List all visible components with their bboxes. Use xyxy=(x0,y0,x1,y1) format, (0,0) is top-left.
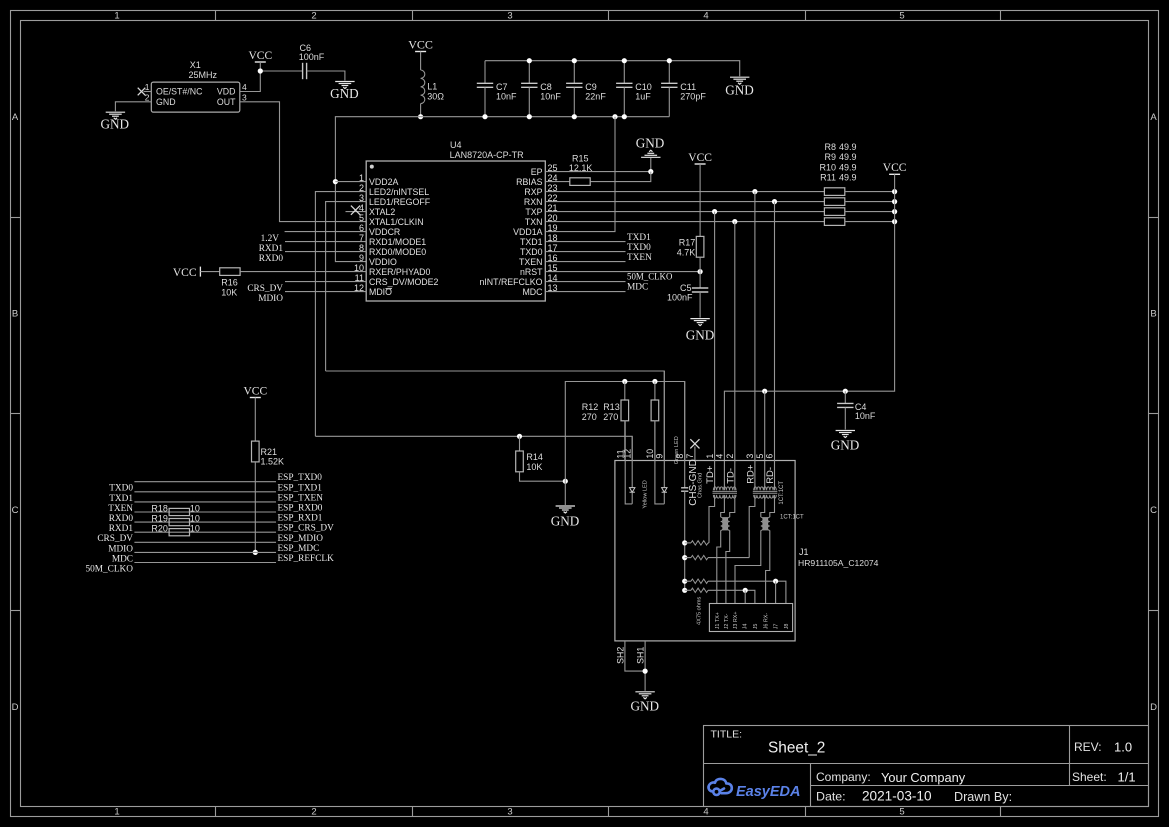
junction dots cap bank top rail xyxy=(527,58,532,63)
wire VCC to R21 xyxy=(254,398,256,442)
wire VDD rail xyxy=(335,117,669,262)
svg-text:CRS_DV/MODE2: CRS_DV/MODE2 xyxy=(369,277,439,287)
wire RXD0 pin8 xyxy=(285,251,366,253)
wire 50M_CLKO to ESP_REFCLK xyxy=(134,562,276,564)
svg-text:VCC: VCC xyxy=(883,162,907,174)
crystal oscillator X1 25MHz xyxy=(151,82,240,112)
svg-text:ESP_REFCLK: ESP_REFCLK xyxy=(278,554,335,564)
wire R17 to nRST node xyxy=(699,257,701,271)
svg-text:5: 5 xyxy=(899,11,904,22)
resistor R12 270 xyxy=(624,382,626,401)
svg-text:3: 3 xyxy=(242,92,247,102)
wire nRST pin15 to R17/C5 xyxy=(545,271,700,273)
svg-text:ESP_RXD1: ESP_RXD1 xyxy=(278,514,323,524)
wire X1 VDD pin4 to VCC xyxy=(240,71,260,92)
transformer RX primary winding xyxy=(764,461,766,490)
common mode choke RX xyxy=(763,517,768,530)
svg-text:9: 9 xyxy=(655,454,665,459)
svg-text:10K: 10K xyxy=(221,287,237,297)
J1 shield pin SH2 xyxy=(625,641,645,671)
svg-text:TXEN: TXEN xyxy=(108,504,133,514)
svg-text:1uF: 1uF xyxy=(635,92,651,102)
svg-text:GND: GND xyxy=(156,97,176,107)
svg-text:TXD1: TXD1 xyxy=(520,237,543,247)
resistor R13 270 xyxy=(654,382,656,401)
wire R9 to VCC rail xyxy=(845,201,895,203)
wire VCC to R17 xyxy=(699,164,701,236)
svg-text:5: 5 xyxy=(755,454,765,459)
svg-text:Sheet_2: Sheet_2 xyxy=(768,740,825,757)
svg-text:VDDIO: VDDIO xyxy=(369,257,397,267)
svg-text:C8: C8 xyxy=(540,82,552,92)
junction dots cap bank bottom rail xyxy=(482,114,487,119)
svg-text:R20: R20 xyxy=(151,524,168,534)
power flag VCC terminations xyxy=(889,173,900,175)
node VDD2A pin1 branch xyxy=(333,179,338,184)
svg-text:GND: GND xyxy=(831,438,860,453)
termination resistor 75ohm 4 xyxy=(685,589,691,591)
wire R8 to VCC rail xyxy=(845,191,895,193)
svg-text:1.52K: 1.52K xyxy=(261,456,285,466)
svg-text:EP: EP xyxy=(531,167,543,177)
inductor L1 30ohm xyxy=(421,70,425,104)
svg-text:2: 2 xyxy=(725,454,735,459)
power flag VCC R17 xyxy=(695,163,706,165)
svg-text:B: B xyxy=(1150,309,1156,320)
svg-text:C: C xyxy=(1150,505,1157,516)
svg-text:10nF: 10nF xyxy=(496,92,517,102)
ground X1 xyxy=(106,112,125,119)
wire TX secondary left to 75ohm xyxy=(709,495,715,543)
wire 75ohm2 to RX secondary xyxy=(708,557,749,559)
wire R10 to VCC rail xyxy=(845,211,895,213)
svg-text:R18: R18 xyxy=(151,504,168,514)
svg-text:ESP_MDIO: ESP_MDIO xyxy=(278,534,324,544)
svg-text:ESP_RXD0: ESP_RXD0 xyxy=(278,504,323,514)
capacitor C7 10nF xyxy=(484,61,486,84)
svg-text:4X75 ohms: 4X75 ohms xyxy=(697,597,703,625)
svg-text:270pF: 270pF xyxy=(680,92,706,102)
wire RXP to J1 pin3 xyxy=(754,192,756,491)
svg-text:OUT: OUT xyxy=(217,97,236,107)
pin 4 XTAL2 no-connect stub xyxy=(346,211,367,213)
svg-text:R12: R12 xyxy=(582,402,599,412)
svg-text:49.9: 49.9 xyxy=(839,142,857,152)
wire RXN to J1 pin6 xyxy=(774,202,776,491)
svg-text:B: B xyxy=(12,309,18,320)
termination resistor 75ohm 3 xyxy=(685,580,691,582)
wire GND rail above caps xyxy=(485,61,740,76)
ground C5 xyxy=(690,319,709,326)
wire RX- to inner pin J6 xyxy=(766,530,770,603)
resistor R16 10K xyxy=(220,268,240,276)
svg-text:10nF: 10nF xyxy=(855,411,876,421)
svg-text:LAN8720A-CP-TR: LAN8720A-CP-TR xyxy=(450,150,525,160)
svg-text:RXD1: RXD1 xyxy=(109,524,134,534)
wire VCC rail down to transformer center taps xyxy=(724,174,894,461)
svg-text:270: 270 xyxy=(603,412,618,422)
svg-text:RXD1/MODE1: RXD1/MODE1 xyxy=(369,237,426,247)
wire RXD0 to ESP_RXD0 xyxy=(134,511,276,513)
wire MDC to ESP_MDC xyxy=(134,551,276,553)
svg-text:10: 10 xyxy=(190,524,200,534)
svg-text:Chas.Gnd: Chas.Gnd xyxy=(697,473,703,498)
svg-text:J2 TX-: J2 TX- xyxy=(724,613,730,629)
wire LED1 net pin3 xyxy=(326,202,367,371)
wire TXP to J1 pin1 xyxy=(714,212,716,491)
svg-text:ESP_MDC: ESP_MDC xyxy=(278,544,320,554)
svg-text:C5: C5 xyxy=(680,283,692,293)
svg-text:Yellow LED: Yellow LED xyxy=(642,480,648,508)
svg-text:MDIO: MDIO xyxy=(108,544,133,554)
common mode choke TX xyxy=(723,517,728,530)
svg-text:TXD1: TXD1 xyxy=(627,233,651,243)
svg-text:1: 1 xyxy=(145,82,150,92)
svg-text:RBIAS: RBIAS xyxy=(516,177,543,187)
wire 75ohm4 to J4 J5 xyxy=(708,590,755,603)
wire R14 to ground rail xyxy=(520,472,566,481)
transformer TX primary winding xyxy=(723,461,725,490)
svg-text:J8: J8 xyxy=(784,624,790,630)
svg-text:RXN: RXN xyxy=(524,197,543,207)
no-connect J1 pin7 xyxy=(694,447,696,462)
svg-text:4.7K: 4.7K xyxy=(677,247,696,257)
svg-text:ESP_TXD1: ESP_TXD1 xyxy=(278,483,323,493)
wire TXD1 to ESP_TXD1 xyxy=(134,491,276,493)
wire C5 to ground xyxy=(699,292,701,318)
resistor R8 49.9 xyxy=(824,188,844,196)
svg-text:U4: U4 xyxy=(450,140,462,150)
svg-text:50M_CLKO: 50M_CLKO xyxy=(85,565,133,575)
wire 75ohm3 to J7 J8 xyxy=(708,581,786,603)
svg-text:1.2V: 1.2V xyxy=(261,234,280,244)
svg-text:SH1: SH1 xyxy=(636,647,646,664)
wire LED2 net to J1 pin12 xyxy=(315,436,632,461)
wire RX secondary CT to choke xyxy=(761,495,765,517)
svg-text:2: 2 xyxy=(311,807,316,818)
svg-text:J6 RX-: J6 RX- xyxy=(764,613,770,630)
svg-text:J7: J7 xyxy=(774,624,780,630)
transformer TX secondary winding xyxy=(713,495,736,498)
svg-text:C11: C11 xyxy=(680,82,696,92)
wire MDIO pin12 xyxy=(285,291,366,293)
svg-text:3: 3 xyxy=(745,454,755,459)
svg-text:C7: C7 xyxy=(496,82,508,92)
yellow LED J1 pin12 xyxy=(631,436,633,487)
svg-text:2: 2 xyxy=(311,11,316,22)
svg-text:HR911105A_C12074: HR911105A_C12074 xyxy=(798,558,879,568)
svg-text:10: 10 xyxy=(190,514,200,524)
wire X1 OUT to XTAL1/CLKIN xyxy=(240,102,366,222)
svg-text:4: 4 xyxy=(242,82,247,92)
svg-text:R14: R14 xyxy=(526,452,543,462)
svg-text:GND: GND xyxy=(631,699,660,714)
wire R13 to J1 pin10 xyxy=(654,421,656,461)
transformer RX secondary winding xyxy=(754,495,777,498)
svg-text:REV:: REV: xyxy=(1074,740,1102,754)
svg-text:1: 1 xyxy=(705,454,715,459)
ground shield xyxy=(635,692,654,699)
svg-text:1/1: 1/1 xyxy=(1118,770,1136,785)
svg-text:A: A xyxy=(12,112,19,123)
svg-text:J5: J5 xyxy=(753,624,759,630)
wire CRS_DV to ESP_CRS_DV xyxy=(134,531,276,533)
svg-text:12.1K: 12.1K xyxy=(569,163,593,173)
svg-text:25MHz: 25MHz xyxy=(189,70,218,80)
wire R16 to RXER pin10 xyxy=(240,271,366,273)
svg-text:4: 4 xyxy=(703,807,708,818)
svg-text:LED2/nINTSEL: LED2/nINTSEL xyxy=(369,187,429,197)
svg-text:TXEN: TXEN xyxy=(519,257,542,267)
svg-text:TITLE:: TITLE: xyxy=(711,729,743,741)
wire VCC to R16 xyxy=(200,271,219,273)
termination resistor 75ohm 1 xyxy=(685,542,691,544)
svg-text:A: A xyxy=(1150,112,1157,123)
svg-text:J3 RX+: J3 RX+ xyxy=(733,611,739,629)
wire TXD1 pin18 xyxy=(545,241,625,243)
wire L1 to VDD rail xyxy=(420,104,422,117)
green LED J1 pin9 xyxy=(663,371,665,487)
svg-text:49.9: 49.9 xyxy=(839,162,857,172)
wire C4 to ground xyxy=(844,407,846,429)
resistor R15 12.1K xyxy=(570,178,590,186)
svg-text:C9: C9 xyxy=(585,82,597,92)
ground C6 xyxy=(335,82,354,89)
pin 1 X1 OE no-connect xyxy=(144,91,152,93)
svg-text:5: 5 xyxy=(899,807,904,818)
svg-text:VDD: VDD xyxy=(217,87,236,97)
svg-text:MDC: MDC xyxy=(627,283,648,293)
svg-text:4: 4 xyxy=(703,11,708,22)
svg-text:30Ω: 30Ω xyxy=(427,92,444,102)
wire TX secondary right to choke xyxy=(730,495,735,517)
svg-text:VDD1A: VDD1A xyxy=(513,227,542,237)
wire EP pin25 to ground xyxy=(545,171,651,173)
wire TX+ to inner pin J1 xyxy=(717,530,721,603)
capacitor C11 270pF xyxy=(668,61,670,84)
capacitor C9 22nF xyxy=(573,61,575,84)
svg-text:VDDCR: VDDCR xyxy=(369,227,400,237)
resistor R10 49.9 xyxy=(824,208,844,216)
svg-text:R11: R11 xyxy=(820,173,836,183)
transformer RX core xyxy=(753,491,778,493)
wire J1 pin11 led loop xyxy=(625,421,632,504)
power flag VCC L1 xyxy=(415,51,426,53)
svg-text:RXD0: RXD0 xyxy=(109,514,134,524)
svg-text:49.9: 49.9 xyxy=(839,152,857,162)
wire chassis rail xyxy=(684,491,686,590)
wire TXEN to ESP_TXEN xyxy=(134,501,276,503)
svg-text:D: D xyxy=(1150,702,1157,713)
wire TXD0 to ESP_TXD0 xyxy=(134,481,276,483)
svg-text:ESP_TXD0: ESP_TXD0 xyxy=(278,473,323,483)
capacitor chassis J1 pin8 xyxy=(684,382,686,488)
capacitor C10 1uF xyxy=(623,61,625,84)
svg-text:3: 3 xyxy=(507,11,512,22)
connector J1 HR911105A_C12074 xyxy=(615,461,795,641)
resistor R21 1.52K xyxy=(252,441,260,462)
wire TXN to J1 pin2 xyxy=(734,222,736,491)
svg-text:TXEN: TXEN xyxy=(627,253,652,263)
svg-text:SH2: SH2 xyxy=(615,647,625,664)
termination resistor 75ohm 2 xyxy=(685,557,691,559)
svg-text:1CT:1CT: 1CT:1CT xyxy=(779,481,785,505)
wire RXN to termination R9 xyxy=(545,201,824,203)
svg-text:1: 1 xyxy=(359,173,364,183)
svg-text:Company:: Company: xyxy=(816,770,871,784)
svg-text:L1: L1 xyxy=(427,82,437,92)
wire nRST to C5 xyxy=(699,272,701,288)
capacitor C5 100nF xyxy=(692,288,708,292)
svg-text:R9: R9 xyxy=(824,152,836,162)
svg-text:VCC: VCC xyxy=(243,385,267,397)
svg-text:12: 12 xyxy=(622,449,632,459)
J1 shield pin SH1 xyxy=(644,641,646,691)
svg-text:J1: J1 xyxy=(799,547,809,557)
svg-text:VCC: VCC xyxy=(688,152,712,164)
svg-text:GND: GND xyxy=(725,83,754,98)
svg-text:1: 1 xyxy=(114,11,119,22)
wire C6 to ground xyxy=(307,71,345,81)
svg-text:10nF: 10nF xyxy=(540,92,561,102)
wire J7 drop xyxy=(775,581,777,603)
svg-text:X1: X1 xyxy=(190,60,201,70)
svg-text:2021-03-10: 2021-03-10 xyxy=(862,789,932,804)
svg-text:CRS_DV: CRS_DV xyxy=(97,534,133,544)
svg-text:2: 2 xyxy=(145,92,150,102)
svg-text:Sheet:: Sheet: xyxy=(1072,770,1107,784)
wire TXD0 pin17 xyxy=(545,251,625,253)
svg-text:TXD0: TXD0 xyxy=(520,247,543,257)
wire VDD1A pin19 to rail xyxy=(545,117,615,232)
svg-text:49.9: 49.9 xyxy=(839,173,857,183)
svg-text:D: D xyxy=(12,702,19,713)
svg-text:50M_CLKO: 50M_CLKO xyxy=(627,272,673,282)
wire R15 to EP node xyxy=(590,172,650,182)
svg-text:J4: J4 xyxy=(742,624,748,630)
svg-text:270: 270 xyxy=(582,412,597,422)
svg-text:Date:: Date: xyxy=(816,790,846,804)
svg-text:C10: C10 xyxy=(635,82,652,92)
wire TXN to termination R11 xyxy=(545,221,824,223)
svg-text:VDD2A: VDD2A xyxy=(369,177,398,187)
svg-text:7: 7 xyxy=(685,454,695,459)
wire LED resistor ground rail xyxy=(565,382,684,506)
svg-text:RXP: RXP xyxy=(524,187,542,197)
svg-text:CRS_DV: CRS_DV xyxy=(247,284,283,294)
svg-text:R17: R17 xyxy=(679,237,696,247)
svg-text:RXD0/MODE0: RXD0/MODE0 xyxy=(369,247,426,257)
svg-text:10K: 10K xyxy=(526,462,542,472)
svg-text:R16: R16 xyxy=(221,277,238,287)
svg-text:10: 10 xyxy=(190,504,200,514)
svg-text:ESP_TXEN: ESP_TXEN xyxy=(278,493,324,503)
svg-text:nINT/REFCLKO: nINT/REFCLKO xyxy=(479,277,542,287)
svg-text:Green LED: Green LED xyxy=(674,436,680,464)
wire RBIAS pin24 to R15 xyxy=(545,181,569,183)
wire X1 GND pin2 xyxy=(115,102,151,111)
svg-text:1.0: 1.0 xyxy=(1114,740,1132,755)
resistor R17 4.7K xyxy=(696,236,704,257)
wire center tap pin5 branch xyxy=(764,391,766,461)
wire J1 pin10 led loop xyxy=(655,421,664,504)
svg-text:MDC: MDC xyxy=(522,287,543,297)
capacitor C8 10nF xyxy=(528,61,530,84)
title block xyxy=(704,726,1149,807)
svg-text:R15: R15 xyxy=(572,154,589,164)
wire VCC node to C6 xyxy=(260,70,302,72)
wire RX+ to inner pin J3 xyxy=(735,530,761,603)
wire LED2 net pin2 xyxy=(315,192,366,437)
resistor R9 49.9 xyxy=(824,198,844,206)
transformer TX core xyxy=(713,491,738,493)
svg-text:R19: R19 xyxy=(151,514,168,524)
IC U4 LAN8720A-CP-TR xyxy=(366,161,545,301)
wire MDIO to ESP_MDIO xyxy=(134,541,276,543)
svg-text:1CT:1CT: 1CT:1CT xyxy=(780,514,804,520)
svg-text:GND: GND xyxy=(101,117,130,132)
wire RX secondary right to choke xyxy=(770,495,775,517)
EasyEDA logo xyxy=(709,779,732,795)
svg-text:XTAL2: XTAL2 xyxy=(369,207,395,217)
wire TX secondary CT to choke xyxy=(721,495,725,517)
ground cap bank xyxy=(730,77,749,84)
svg-text:1: 1 xyxy=(114,807,119,818)
svg-text:ESP_CRS_DV: ESP_CRS_DV xyxy=(278,524,335,534)
svg-text:100nF: 100nF xyxy=(667,293,693,303)
svg-text:TXD1: TXD1 xyxy=(109,494,133,504)
svg-text:GND: GND xyxy=(330,86,359,101)
wire J4 drop xyxy=(744,590,746,603)
wire RX secondary left to 75ohm xyxy=(749,495,755,558)
svg-text:LED1/REGOFF: LED1/REGOFF xyxy=(369,197,431,207)
wire RXD1 to ESP_RXD1 xyxy=(134,521,276,523)
svg-text:R10: R10 xyxy=(819,162,836,172)
power flag VCC X1 xyxy=(255,61,266,63)
svg-text:J1 TX+: J1 TX+ xyxy=(715,612,721,629)
svg-text:nRST: nRST xyxy=(520,267,543,277)
svg-text:3: 3 xyxy=(507,807,512,818)
svg-text:MDC: MDC xyxy=(112,554,133,564)
ground EP flipped xyxy=(650,158,652,172)
svg-text:VCC: VCC xyxy=(173,267,197,279)
wire CRS_DV pin11 xyxy=(285,281,366,283)
svg-text:XTAL1/CLKIN: XTAL1/CLKIN xyxy=(369,217,424,227)
wire RXP to termination R8 xyxy=(545,191,824,193)
svg-text:RXD0: RXD0 xyxy=(259,254,284,264)
wire VDDCR 1.2V pin6 xyxy=(285,231,367,233)
svg-text:TXP: TXP xyxy=(525,207,542,217)
svg-text:TXN: TXN xyxy=(525,217,543,227)
svg-text:6: 6 xyxy=(765,454,775,459)
wire nINT/REFCLKO pin14 xyxy=(545,281,625,283)
capacitor C4 10nF xyxy=(844,391,846,403)
svg-text:Your Company: Your Company xyxy=(881,770,966,785)
resistor R19 10 xyxy=(169,519,189,526)
svg-text:VCC: VCC xyxy=(248,50,272,62)
svg-text:100nF: 100nF xyxy=(299,52,325,62)
ground LED rail xyxy=(556,506,575,513)
wire R21 to ESP_MDC line xyxy=(254,462,256,552)
power flag VCC R21 xyxy=(250,397,261,399)
svg-text:VCC: VCC xyxy=(408,37,433,51)
svg-text:9: 9 xyxy=(359,253,364,263)
wire TX- to inner pin J2 xyxy=(726,530,730,603)
J1 inner connector box xyxy=(709,604,792,632)
wire TXP to termination R10 xyxy=(545,211,824,213)
wire TXEN pin16 xyxy=(545,261,625,263)
svg-text:GND: GND xyxy=(636,136,665,151)
